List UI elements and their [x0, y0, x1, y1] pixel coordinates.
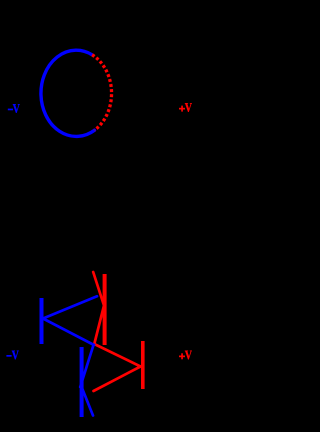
svg-text:v: v — [185, 343, 193, 364]
svg-text:v: v — [13, 96, 21, 117]
svg-text:v: v — [12, 342, 20, 363]
svg-text:v: v — [185, 95, 193, 116]
